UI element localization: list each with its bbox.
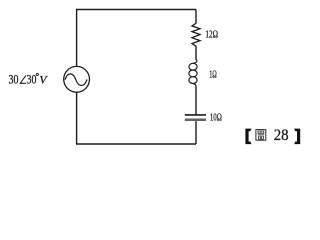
- svg-text:V: V: [39, 72, 48, 86]
- svg-text:30: 30: [27, 73, 37, 87]
- svg-text:10Ω: 10Ω: [210, 113, 222, 124]
- svg-text:1Ω: 1Ω: [209, 70, 217, 81]
- svg-text:30: 30: [9, 73, 19, 87]
- svg-text:28: 28: [274, 127, 289, 144]
- svg-text:12Ω: 12Ω: [205, 29, 218, 41]
